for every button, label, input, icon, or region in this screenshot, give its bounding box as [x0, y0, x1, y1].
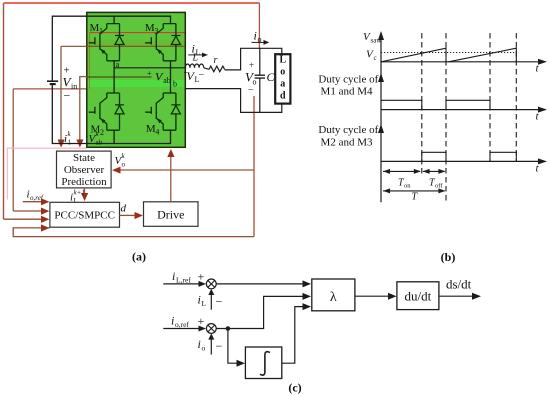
label integral	[260, 352, 270, 375]
Vc dotted level	[381, 52, 516, 54]
wire leg2 mid node b	[170, 61, 172, 93]
pulse M1M4 first	[381, 100, 422, 109]
wire dot to integrator	[228, 329, 237, 364]
wire vab-b feedback horizontal	[13, 88, 86, 90]
wire leg1 mid node a	[113, 61, 115, 93]
igbt M3	[145, 24, 180, 61]
svg-text:k: k	[68, 130, 72, 138]
svg-text:o: o	[122, 161, 126, 169]
wire sum2 to lambda mid input	[216, 296, 303, 328]
arrowhead vab-b feedback	[41, 208, 49, 215]
summing junction 1	[206, 279, 216, 289]
svg-text:L: L	[279, 55, 286, 66]
arrowhead io stub	[208, 333, 214, 339]
axis2 t line	[381, 109, 540, 111]
svg-text:Duty cycle of: Duty cycle of	[318, 124, 378, 136]
arrowhead bottom input lambda	[303, 303, 312, 310]
arrowhead vo feedback	[41, 224, 49, 231]
bridge inner red line top	[90, 32, 185, 34]
svg-text:ab: ab	[163, 76, 171, 85]
Drive box	[144, 202, 199, 227]
wire io feedback into PCC	[4, 218, 42, 220]
wire lambda to dudt	[355, 295, 389, 297]
arrowhead PCC to Drive	[135, 212, 143, 219]
svg-text:1: 1	[68, 139, 72, 147]
svg-text:on: on	[404, 183, 411, 190]
svg-text:M1 and M4: M1 and M4	[321, 86, 373, 98]
svg-text:in: in	[71, 82, 77, 91]
axis3 arrowhead	[538, 158, 547, 164]
svg-text:M2 and M3: M2 and M3	[321, 136, 373, 148]
svg-text:b: b	[173, 80, 177, 89]
load box	[275, 54, 290, 103]
lambda box	[312, 279, 355, 311]
arrowhead vo-k	[112, 167, 121, 174]
svg-text:M: M	[145, 22, 155, 34]
pulse M1M4 second	[446, 100, 490, 109]
green bridge box	[87, 12, 186, 147]
svg-text:k+1: k+1	[74, 189, 85, 197]
svg-text:−: −	[199, 70, 205, 81]
wire dudt output	[439, 295, 473, 297]
arrowhead mid input lambda	[303, 293, 312, 300]
svg-text:λ: λ	[330, 290, 337, 305]
axis1 t line	[381, 61, 540, 63]
wire io-ref into PCC	[23, 201, 42, 203]
arrowhead vab sense	[76, 140, 83, 148]
svg-text:1: 1	[99, 27, 103, 36]
arrowhead Drive to bridge	[167, 149, 174, 157]
wire observer to PCC	[84, 188, 86, 194]
svg-text:+: +	[147, 69, 152, 78]
svg-text:PCC/SMPCC: PCC/SMPCC	[54, 210, 115, 222]
gate rail brown	[61, 45, 185, 47]
y axis arrowhead top	[378, 31, 384, 40]
svg-text:k: k	[122, 152, 126, 160]
wire io feedback left vertical	[3, 3, 5, 219]
bridge inner red line left	[89, 33, 91, 89]
T measure arrow	[383, 190, 445, 192]
igbt M1	[89, 24, 124, 61]
svg-text:ab: ab	[96, 139, 103, 147]
svg-text:M: M	[90, 22, 100, 34]
svg-text:State: State	[73, 152, 95, 164]
dudt box	[397, 282, 439, 310]
svg-text:−: −	[216, 295, 223, 309]
svg-text:+: +	[249, 60, 254, 70]
wire iL-k sense vertical	[60, 46, 62, 140]
capacitor C plates	[255, 75, 265, 78]
svg-text:du/dt: du/dt	[405, 289, 432, 304]
y axis arrowhead bottom	[378, 124, 384, 133]
svg-text:t: t	[536, 111, 540, 123]
svg-text:2: 2	[100, 128, 104, 137]
sawtooth ramp 2	[449, 48, 517, 62]
resistor r zigzag	[209, 66, 225, 72]
arrowhead into sum2	[199, 326, 207, 332]
svg-text:M: M	[146, 123, 156, 135]
wire io stub	[210, 339, 212, 355]
svg-text:d: d	[280, 91, 286, 102]
svg-text:L: L	[202, 299, 207, 308]
dashed vline 3	[489, 33, 491, 161]
axis1 arrowhead	[538, 59, 547, 65]
wire iLref into sum1	[163, 283, 199, 285]
wire pink aux	[7, 148, 86, 199]
dashed vline 4	[515, 33, 517, 161]
svg-text:(c): (c)	[288, 381, 301, 395]
svg-text:4: 4	[155, 127, 159, 136]
svg-text:−: −	[64, 89, 71, 103]
svg-text:3: 3	[154, 27, 158, 36]
svg-text:t: t	[536, 162, 540, 174]
bridge shade band bright	[88, 80, 185, 87]
wire resistor to output node	[225, 48, 282, 70]
wire node b to output bottom	[185, 89, 281, 113]
capacitor C wire top	[259, 48, 261, 75]
wire sum1 to lambda	[216, 283, 303, 285]
bridge shade band dark	[88, 41, 185, 48]
arrowhead observer to PCC	[81, 193, 88, 201]
PART B	[318, 31, 547, 264]
axis2 arrowhead	[538, 107, 547, 113]
svg-text:off: off	[435, 183, 443, 190]
svg-text:o: o	[202, 344, 206, 353]
svg-text:i: i	[171, 314, 174, 328]
y axis line	[380, 33, 382, 202]
dashed vline 2	[445, 33, 447, 202]
PCC SMPCC box	[50, 202, 120, 227]
y axis arrowhead mid	[378, 73, 384, 82]
wire iL stub	[210, 294, 212, 310]
svg-text:ds/dt: ds/dt	[446, 277, 472, 292]
svg-text:−: −	[248, 85, 254, 96]
pulse M2M3 second	[490, 152, 516, 161]
svg-text:L: L	[192, 53, 199, 64]
arrowhead into integrator	[237, 360, 246, 367]
Ton measure arrow	[383, 170, 420, 172]
wire vab sense corner	[80, 77, 87, 141]
svg-text:saw: saw	[371, 37, 383, 45]
svg-text:o: o	[280, 67, 285, 78]
svg-text:Drive: Drive	[157, 208, 184, 222]
wire PCC to Drive	[120, 214, 136, 216]
wire io sense drop right (red-brown)	[258, 3, 260, 48]
svg-text:c: c	[374, 54, 377, 62]
wire battery top to bridge top rail	[52, 16, 170, 81]
wire io feedback top border (red)	[4, 2, 260, 4]
svg-text:o,ref: o,ref	[175, 320, 189, 329]
Toff measure arrow	[423, 170, 445, 172]
sawtooth ramp 1	[381, 48, 446, 62]
svg-text:(b): (b)	[441, 250, 456, 264]
wire vo feedback bottom return	[13, 228, 254, 237]
wire vab-b feedback inside bridge	[87, 88, 171, 90]
wire battery bottom to bridge bottom rail	[52, 85, 170, 144]
PART C	[163, 269, 481, 395]
state observer prediction box	[57, 151, 112, 188]
wire node a to inductor	[114, 67, 185, 69]
svg-text:(a): (a)	[132, 250, 146, 264]
wire vab-b feedback into PCC	[13, 210, 41, 212]
svg-text:Duty cycle of: Duty cycle of	[318, 74, 378, 86]
arrowhead into sum1	[199, 281, 207, 287]
wire ioref into sum2	[163, 328, 199, 330]
svg-text:i: i	[254, 29, 257, 43]
axis3 t line	[381, 160, 540, 162]
arrowhead into dudt	[388, 293, 397, 300]
summing junction 2	[206, 324, 216, 334]
svg-text:i: i	[198, 293, 201, 307]
svg-text:i: i	[172, 269, 175, 283]
arrowhead output	[472, 293, 481, 300]
svg-text:i: i	[198, 337, 201, 351]
svg-text:Observer: Observer	[64, 164, 105, 176]
PART A	[4, 3, 291, 264]
arrowhead iL stub	[208, 289, 214, 295]
svg-text:Prediction: Prediction	[61, 176, 107, 188]
arrowhead io feedback	[41, 216, 49, 223]
arrowhead iL-k sense	[58, 140, 65, 148]
svg-text:d: d	[121, 203, 127, 215]
wire integrator to lambda bottom input	[282, 307, 303, 364]
wire vo-k into observer	[121, 169, 255, 171]
svg-text:a: a	[280, 79, 285, 90]
wire vab-b feedback left vertical	[12, 89, 14, 211]
pulse M2M3 first	[422, 152, 446, 161]
vab sense wire olive inside bridge	[87, 76, 152, 78]
dashed vline 1	[421, 33, 423, 174]
battery Vin short plate	[50, 83, 56, 85]
arrowhead io-ref	[41, 198, 49, 205]
svg-text:−: −	[216, 339, 223, 353]
wire Drive to bridge	[170, 156, 172, 202]
wire coil to resistor	[204, 68, 209, 70]
svg-text:L,ref: L,ref	[176, 276, 191, 285]
svg-text:r: r	[214, 55, 218, 66]
igbt M4	[145, 93, 180, 130]
battery Vin long plate	[47, 80, 58, 82]
igbt M2	[89, 93, 124, 130]
integrator box	[245, 347, 281, 379]
inductor L coil	[185, 64, 203, 68]
svg-text:T: T	[412, 192, 419, 203]
capacitor C wire bottom	[259, 78, 261, 112]
arrowhead sum1 to lambda	[303, 280, 312, 287]
wire vo sense vertical	[253, 96, 255, 237]
junction dot	[226, 326, 231, 331]
